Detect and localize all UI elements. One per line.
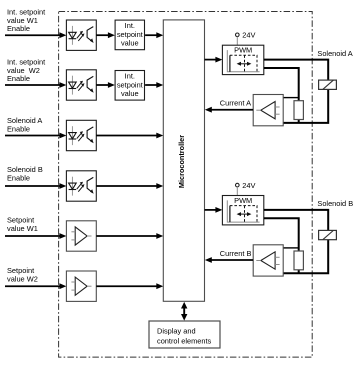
svg-text:Int.: Int.	[125, 21, 135, 30]
input label Int. setpoint value W2 Enable	[7, 58, 45, 84]
svg-text:Current B: Current B	[220, 249, 252, 258]
wire sense top B (amp to resistor top)	[283, 247, 299, 249]
wire int. setpoint box to microcontroller row 1	[145, 32, 163, 38]
input wire/arrow row 3	[5, 133, 66, 139]
input label Setpoint value W1	[7, 216, 38, 233]
optocoupler U3	[66, 120, 96, 150]
wire PWM B pin1 to solenoid B	[264, 210, 328, 231]
PWM output stage B	[222, 196, 263, 225]
svg-text:control elements: control elements	[157, 336, 212, 345]
svg-text:value: value	[121, 39, 139, 48]
block Int. setpoint value 2	[115, 71, 144, 101]
optocoupler U2	[66, 70, 96, 100]
label Current B	[220, 249, 252, 258]
wire row 5 to microcontroller	[96, 233, 163, 239]
svg-text:Enable: Enable	[7, 124, 30, 133]
svg-text:setpoint: setpoint	[117, 30, 143, 39]
current sense amplifier B	[253, 245, 283, 276]
wire/arrow Current A to microcontroller	[205, 107, 253, 113]
svg-text:Enable: Enable	[7, 74, 30, 83]
input label Solenoid B Enable	[7, 165, 43, 182]
label Solenoid B	[317, 199, 353, 208]
microcontroller U5	[163, 20, 204, 301]
wire row 3 to microcontroller	[96, 133, 163, 139]
svg-text:Solenoid B: Solenoid B	[317, 199, 353, 208]
shunt resistor R2	[294, 251, 303, 270]
label Solenoid A	[317, 49, 352, 58]
svg-text:Enable: Enable	[7, 173, 30, 182]
svg-text:Microcontroller: Microcontroller	[177, 135, 186, 188]
wire microcontroller to PWM A	[205, 57, 223, 63]
svg-text:PWM: PWM	[234, 46, 252, 55]
input wire/arrow row 6	[5, 283, 66, 289]
svg-text:value: value	[121, 89, 139, 98]
wire optocoupler to int. setpoint box row 2	[96, 82, 115, 88]
wire row 4 to microcontroller	[96, 183, 163, 189]
block Display and control elements	[149, 321, 220, 348]
wire solenoid B return to shunt resistor	[283, 240, 328, 274]
wire PWM B pin2 to shunt resistor R2	[264, 218, 299, 251]
input wire/arrow row 2	[5, 82, 66, 88]
wire/arrow Current B to microcontroller	[205, 257, 253, 263]
wire solenoid A return to shunt resistor	[283, 89, 328, 123]
wire optocoupler to int. setpoint box row 1	[96, 32, 115, 38]
wire shunt resistor bottom stub A	[298, 120, 300, 123]
svg-text:24V: 24V	[242, 31, 255, 40]
block Int. setpoint value 1	[115, 20, 144, 50]
solenoid A (coil symbol)	[319, 80, 337, 89]
optocoupler U4	[66, 171, 96, 201]
input label Solenoid A Enable	[7, 116, 42, 133]
svg-text:PWM: PWM	[234, 196, 252, 205]
shunt resistor R1	[294, 101, 303, 120]
svg-text:Display and: Display and	[157, 327, 196, 336]
label Current A	[220, 99, 251, 108]
optocoupler U1	[66, 20, 96, 50]
input label Setpoint value W2	[7, 266, 38, 283]
solenoid B (coil symbol)	[319, 230, 337, 239]
wire int. setpoint box to microcontroller row 2	[145, 82, 163, 88]
svg-text:value W2: value W2	[7, 274, 38, 283]
input wire/arrow row 1	[5, 32, 66, 38]
buffer amplifier A1	[66, 221, 96, 251]
24V supply node A	[236, 31, 256, 46]
current sense amplifier A	[253, 95, 283, 126]
module boundary (dash-dot frame)	[59, 12, 313, 358]
svg-text:Int.: Int.	[125, 72, 135, 81]
svg-text:value W1: value W1	[7, 224, 38, 233]
svg-text:setpoint: setpoint	[117, 80, 143, 89]
buffer amplifier A2	[66, 271, 96, 301]
24V supply node B	[236, 181, 256, 196]
wire microcontroller to display (double arrow)	[181, 302, 187, 321]
svg-text:Current A: Current A	[220, 99, 251, 108]
input wire/arrow row 5	[5, 233, 66, 239]
wire PWM A pin2 to shunt resistor R1	[264, 68, 299, 101]
wire sense top A (amp to resistor top)	[283, 97, 299, 99]
input label Int. setpoint value W1 Enable	[7, 8, 45, 33]
wire row 6 to microcontroller	[96, 283, 163, 289]
svg-text:Solenoid A: Solenoid A	[317, 49, 352, 58]
wire PWM A pin1 to solenoid A	[264, 60, 328, 81]
input wire/arrow row 4	[5, 183, 66, 189]
PWM output stage A	[222, 45, 263, 74]
wire microcontroller to PWM B	[205, 207, 223, 213]
svg-text:24V: 24V	[242, 181, 255, 190]
svg-text:Enable: Enable	[7, 24, 30, 33]
wire shunt resistor bottom stub B	[298, 270, 300, 273]
